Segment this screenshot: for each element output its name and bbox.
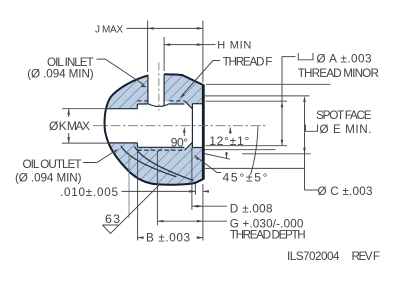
- svg-text:12°±1°: 12°±1°: [209, 134, 249, 148]
- svg-text:REV F: REV F: [352, 250, 381, 263]
- svg-text:(Ø .094 MIN): (Ø .094 MIN): [15, 171, 82, 184]
- svg-text:B ±.003: B ±.003: [146, 232, 190, 245]
- svg-text:Ø C ±.003: Ø C ±.003: [318, 185, 373, 198]
- svg-text:90°: 90°: [171, 136, 188, 150]
- svg-text:J MAX: J MAX: [95, 24, 123, 35]
- svg-text:Ø K MAX: Ø K MAX: [49, 119, 90, 133]
- svg-text:H MIN: H MIN: [217, 39, 251, 51]
- svg-text:Ø E MIN.: Ø E MIN.: [320, 123, 372, 136]
- svg-text:THREAD DEPTH: THREAD DEPTH: [230, 229, 306, 242]
- svg-text:.010±.005: .010±.005: [60, 186, 118, 199]
- svg-text:OIL OUTLET: OIL OUTLET: [23, 158, 82, 171]
- svg-text:D ±.008: D ±.008: [230, 203, 273, 216]
- svg-text:(Ø .094 MIN): (Ø .094 MIN): [27, 68, 94, 81]
- svg-text:THREAD F: THREAD F: [223, 55, 273, 68]
- svg-text:45°±5°: 45°±5°: [223, 171, 268, 185]
- svg-text:THREAD MINOR: THREAD MINOR: [298, 67, 379, 80]
- svg-text:SPOT FACE: SPOT FACE: [316, 109, 372, 122]
- svg-text:Ø A ±.003: Ø A ±.003: [317, 52, 372, 65]
- svg-text:ILS702004: ILS702004: [287, 250, 340, 263]
- svg-text:63: 63: [105, 212, 120, 226]
